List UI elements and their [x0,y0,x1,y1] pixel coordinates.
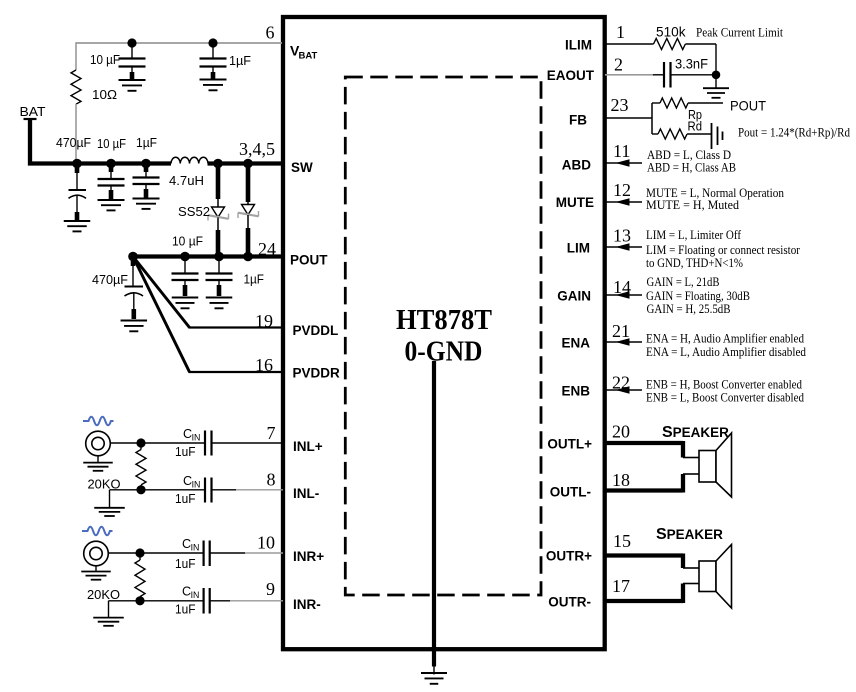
U1 inner dashed boundary [345,77,541,595]
label GAIN = L, 21dB [647,275,720,289]
label 20KO (left) [88,477,121,492]
wire right source to node [108,552,140,554]
ground of 1uF (VBAT) [200,80,227,91]
capacitor CIN 1uF (INL+) [141,431,212,456]
wire pin 14 GAIN with arrow [605,291,642,298]
label SS52 [178,204,210,219]
label CIN (INR-) [182,585,199,601]
pin label ILIM (pin 1) [565,38,592,53]
svg-text:INR-: INR- [293,597,321,612]
label ENB = H, Boost Converter enabled [646,377,802,391]
resistor 20KO (left) [136,443,146,490]
svg-text:7: 7 [267,423,276,443]
svg-text:FB: FB [569,113,587,128]
ground of 10uF (SW) [98,200,125,210]
svg-text:ENA = L, Audio Amplifier disab: ENA = L, Audio Amplifier disabled [646,345,806,359]
ground of 1uF (POUT) [206,298,233,309]
capacitor 3.3nF [664,62,671,88]
svg-text:ABD: ABD [562,158,591,173]
svg-text:ENB = L, Boost Converter disab: ENB = L, Boost Converter disabled [646,391,804,405]
label Peak Current Limit [696,26,784,40]
wire SW to D2 [247,165,249,205]
label 10uF (VBAT) [90,52,120,67]
svg-text:1uF: 1uF [175,445,196,459]
svg-text:OUTL-: OUTL- [550,485,591,500]
diode D2 SS52 [238,205,259,219]
op-amp U1 HT878T chip body outline [283,17,605,649]
svg-text:INL-: INL- [293,486,319,501]
ground of 470uF (BAT) [64,221,91,231]
pin number 24 [258,239,276,259]
pin number 11 [613,141,630,161]
svg-text:1µF: 1µF [229,53,251,68]
node SW-470uF [72,159,82,169]
svg-text:6: 6 [266,23,275,43]
diode D1 SS52 [208,207,229,221]
svg-text:21: 21 [612,321,630,341]
svg-text:12: 12 [613,180,631,200]
label 470uF (BAT) [56,135,91,150]
pin number 6 [266,23,275,43]
node SW-D1 [213,159,223,169]
label 20KO (right) [87,587,120,602]
wire pin 18 OUTL- [605,474,683,493]
wire pin 20 OUTL+ [605,441,683,458]
label 1uF (BAT) [136,135,157,150]
pin label OUTL+ (pin 20) [547,437,592,452]
svg-text:Rd: Rd [688,119,703,134]
ground of Rd (rotated) [712,123,723,149]
svg-text:470µF: 470µF [56,135,91,150]
svg-text:HT878T: HT878T [396,305,492,336]
pin label GAIN (pin 14) [557,289,591,304]
svg-text:MUTE = H, Muted: MUTE = H, Muted [646,198,739,212]
ground of 1uF (SW) [133,199,160,209]
pin label INL- (pin 8) [293,486,319,501]
svg-text:1µF: 1µF [244,272,265,287]
svg-text:2: 2 [614,55,623,75]
U1 label 0-GND [405,337,483,368]
node POUT-1uF [214,252,224,262]
label 10uF (POUT) [172,234,203,249]
label 1uF (INR-) [175,603,196,617]
svg-text:9: 9 [266,579,275,599]
svg-text:1uF: 1uF [175,492,196,506]
label 1uF (INL-) [175,492,196,506]
capacitor CIN 1uF (INR-) [140,588,210,614]
svg-text:20KO: 20KO [88,477,121,492]
resistor 510k [654,39,686,50]
svg-text:ENA = H, Audio Amplifier enabl: ENA = H, Audio Amplifier enabled [646,332,804,346]
svg-text:20KO: 20KO [87,587,120,602]
pin number 20 [612,422,630,442]
pin label OUTL- (pin 18) [550,485,591,500]
label 1uF (VBAT) [229,53,251,68]
label ENB = L, Boost Converter disabled [646,391,804,405]
resistor Rd [652,129,711,139]
svg-text:IN: IN [191,590,200,600]
svg-text:23: 23 [611,95,629,115]
svg-text:10 µF: 10 µF [97,136,126,151]
wire pin 1 ILIM [605,43,654,45]
pin label INR+ (pin 10) [293,549,324,564]
ground of left source [83,456,113,471]
svg-text:510k: 510k [656,24,686,40]
pin number 21 [612,321,630,341]
wire CIN to pin 9 [210,600,283,602]
svg-text:INL+: INL+ [293,439,323,454]
svg-text:ABD = H, Class AB: ABD = H, Class AB [647,161,736,175]
svg-text:ENB: ENB [561,384,590,399]
svg-text:1µF: 1µF [136,135,157,150]
wire D1 to POUT rail [217,218,219,255]
pin number 7 [267,423,276,443]
label SPEAKER (right) [656,526,723,543]
node VBAT-C1 [127,38,136,47]
pin label ENA (pin 21) [561,336,590,351]
pin number 18 [612,470,630,490]
label 10uF (BAT) [97,136,126,151]
capacitor 10uF (VBAT) [119,43,146,79]
pin number 15 [613,531,631,551]
svg-text:10: 10 [257,533,275,553]
svg-text:3.3nF: 3.3nF [675,57,708,72]
capacitor CIN 1uF (INR+) [140,541,210,567]
ground below U1 [421,665,447,684]
node INR junction top [135,548,144,557]
ground of right source [81,566,111,580]
svg-text:20: 20 [612,422,630,442]
label 1uF (INL+) [175,445,196,459]
wire CIN to pin 7 [212,442,284,444]
wire 3.3nF to node [671,74,715,76]
label SPEAKER (left) [662,424,729,441]
wire pin 11 ABD with arrow [605,159,642,166]
svg-text:EAOUT: EAOUT [547,68,595,83]
wire BAT to SW rail [30,119,171,164]
svg-text:ENA: ENA [561,336,590,351]
pin number 14 [613,277,631,297]
wire pin 15 OUTR+ [605,554,683,569]
ground of 10uF (POUT) [172,298,199,309]
label Rd [688,119,703,134]
svg-text:1: 1 [616,22,625,42]
svg-text:10 µF: 10 µF [172,234,203,249]
svg-text:INR+: INR+ [293,549,324,564]
wire POUT to PVDDR [133,257,283,373]
ground of 10uF (VBAT) [119,80,146,91]
pin label POUT (pin 24) [290,253,328,268]
svg-text:GAIN = H, 25.5dB: GAIN = H, 25.5dB [647,302,731,316]
svg-text:POUT: POUT [730,98,766,114]
wire pin 21 ENA with arrow [605,338,642,345]
svg-text:1uF: 1uF [175,603,196,617]
node INR junction bottom [135,596,144,605]
pin label INL+ (pin 7) [293,439,323,454]
ground of 20KO (left) [94,508,125,516]
svg-text:11: 11 [613,141,630,161]
ground of 470uF (POUT) [121,321,148,332]
svg-text:ILIM: ILIM [565,38,592,53]
pin number 22 [612,373,630,393]
svg-text:4.7uH: 4.7uH [169,173,204,188]
pin label EAOUT (pin 2) [547,68,595,83]
pin label ENB (pin 22) [561,384,590,399]
svg-text:LIM: LIM [567,241,590,256]
node SW-1uF [141,159,151,169]
pin label INR- (pin 9) [293,597,321,612]
label 4.7uH [169,173,204,188]
svg-text:IN: IN [192,433,201,443]
wire left source to node [110,442,141,444]
svg-text:ENB = H, Boost Converter enabl: ENB = H, Boost Converter enabled [646,377,802,391]
svg-text:8: 8 [267,470,276,490]
svg-text:IN: IN [192,480,201,490]
svg-text:Peak Current Limit: Peak Current Limit [696,26,784,40]
pin label PVDDR (pin 16) [293,366,341,381]
label LIM = L, Limiter Off [646,228,742,242]
signal source symbol (right channel) [82,527,113,566]
pin number 16 [255,355,273,375]
label POUT net [730,98,766,114]
node POUT-D2 [243,252,253,262]
svg-text:10 µF: 10 µF [90,52,120,67]
signal source symbol (left channel) [83,417,114,456]
pin number 17 [612,576,630,596]
speaker LS2 [683,545,732,609]
pin number 2 [614,55,623,75]
label 1uF (INR+) [175,557,196,571]
svg-text:GAIN = L, 21dB: GAIN = L, 21dB [647,275,720,289]
svg-text:SPEAKER: SPEAKER [656,526,723,543]
wire pin 17 OUTR- [605,584,683,604]
wire SW to D1 [217,165,219,207]
wire POUT to PVDDL [133,257,283,328]
label ENA = L, Audio Amplifier disabled [646,345,806,359]
svg-text:18: 18 [612,470,630,490]
svg-text:PVDDL: PVDDL [293,323,339,338]
wire VBAT rail (pin 6) [76,42,282,70]
svg-text:MUTE: MUTE [556,195,594,210]
wire CIN to pin 10 [210,552,283,554]
label Rp [688,107,702,122]
wire CIN to pin 8 [212,489,284,491]
label CIN (INL-) [183,474,200,490]
pin number 3,4,5 [239,139,275,159]
capacitor 1uF (POUT) [206,259,233,296]
label ABD = H, Class AB [647,161,736,175]
node POUT-10uF [180,252,190,262]
svg-text:SW: SW [291,160,313,175]
pin number 8 [267,470,276,490]
svg-text:to GND, THD+N<1%: to GND, THD+N<1% [646,256,743,270]
inductor 4.7uH [171,157,208,163]
pin number 23 [611,95,629,115]
capacitor 470uF (POUT) polarized [125,259,144,319]
pin label SW (pins 3,4,5) [291,160,313,175]
wire POUT rail (pin 24) [133,254,283,258]
pin label ABD (pin 11) [562,158,591,173]
capacitor 10uF (POUT) [172,259,199,296]
node POUT-470uF [128,252,138,262]
ground of 20KO (right) [93,618,124,626]
ground of EAOUT network [703,78,729,98]
svg-text:SS52: SS52 [178,204,210,219]
resistor 10R [71,70,81,162]
resistor Rp [652,98,723,108]
svg-text:OUTR+: OUTR+ [546,549,592,564]
label CIN (INL+) [183,427,200,443]
node VBAT-C2 [208,38,217,47]
label MUTE = L, Normal Operation [646,186,784,200]
pin number 9 [266,579,275,599]
wire to left 20KO ground [110,490,142,508]
svg-text:GAIN: GAIN [557,289,591,304]
svg-text:SPEAKER: SPEAKER [662,424,729,441]
terminal BAT [20,104,46,119]
wire U1 internal ground stem [432,361,436,667]
svg-text:3,4,5: 3,4,5 [239,139,275,159]
pin label MUTE (pin 12) [556,195,594,210]
label 3.3nF [675,57,708,72]
pin number 13 [613,226,631,246]
resistor 20KO (right) [135,553,145,601]
node EAOUT-510k junction [712,71,721,80]
svg-text:0-GND: 0-GND [405,337,483,368]
pin number 10 [257,533,275,553]
node INL junction bottom [136,485,145,494]
svg-text:1uF: 1uF [175,557,196,571]
svg-text:470µF: 470µF [92,272,128,287]
svg-text:OUTR-: OUTR- [548,595,591,610]
label 1uF (POUT) [244,272,265,287]
svg-text:PVDDR: PVDDR [293,366,341,381]
svg-text:GAIN = Floating, 30dB: GAIN = Floating, 30dB [646,289,750,303]
capacitor CIN 1uF (INL-) [141,478,212,503]
wire SW rail to chip [208,161,284,165]
U1 part name label HT878T [396,305,492,336]
node SW-10uF [106,159,116,169]
label LIM = Floating or connect resistor [646,243,800,257]
svg-text:POUT: POUT [290,253,328,268]
label ABD = L, Class D [647,148,731,162]
capacitor 470uF (BAT) polarized [69,166,87,220]
node SW-D2 [243,159,253,169]
pin number 12 [613,180,631,200]
node INL junction top [136,438,145,447]
svg-text:LIM = L, Limiter Off: LIM = L, Limiter Off [646,228,742,242]
svg-text:BAT: BAT [299,51,318,62]
svg-text:LIM = Floating or connect resi: LIM = Floating or connect resistor [646,243,800,257]
label 470uF (POUT) [92,272,128,287]
label MUTE = H, Muted [646,198,739,212]
label ENA = H, Audio Amplifier enabled [646,332,804,346]
wire D2 to POUT rail [247,215,249,254]
svg-text:IN: IN [191,543,200,553]
speaker LS1 [683,433,732,497]
wire to right 20KO ground [109,601,141,618]
pin label PVDDL (pin 19) [293,323,339,338]
label Pout formula [738,126,850,140]
wire 510k to EAOUT node [685,44,716,73]
wire pin 2 EAOUT [605,74,664,76]
wire pin 12 MUTE with arrow [605,198,642,205]
pin label OUTR- (pin 17) [548,595,591,610]
pin number 1 [616,22,625,42]
pin label VBAT (pin 6) [290,43,318,62]
svg-text:13: 13 [613,226,631,246]
pin label FB (pin 23) [569,113,587,128]
label 510k [656,24,686,40]
pin number 19 [255,311,273,331]
label GAIN = Floating, 30dB [646,289,750,303]
wire pin 23 FB [605,103,652,134]
label CIN (INR+) [182,537,199,553]
svg-text:OUTL+: OUTL+ [547,437,592,452]
label 10R [92,87,117,102]
label GAIN = H, 25.5dB [647,302,731,316]
pin label OUTR+ (pin 15) [546,549,592,564]
svg-text:Pout = 1.24*(Rd+Rp)/Rd: Pout = 1.24*(Rd+Rp)/Rd [738,126,850,140]
pin label LIM (pin 13) [567,241,590,256]
svg-text:10Ω: 10Ω [92,87,117,102]
wire pin 13 LIM with arrow [605,243,642,250]
svg-text:BAT: BAT [20,104,46,119]
svg-text:17: 17 [612,576,630,596]
label to GND, THD+N lt 1% [646,256,743,270]
capacitor 1uF (VBAT) [200,43,227,79]
capacitor 10uF (SW) [98,166,125,199]
capacitor 1uF (SW) [133,166,160,198]
wire pin 22 ENB with arrow [605,386,642,393]
svg-text:15: 15 [613,531,631,551]
